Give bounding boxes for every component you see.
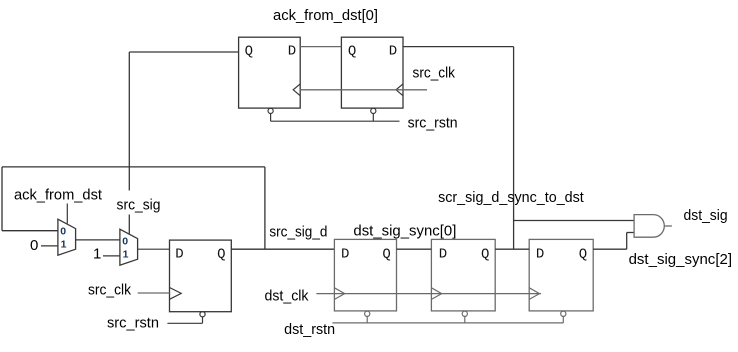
svg-text:0: 0: [30, 237, 38, 254]
flip-flop U2 (ack sync stage 1, top-right): [341, 37, 403, 108]
wire src_sig_d: U3.Q to U4.D: [231, 248, 334, 250]
svg-text:D: D: [536, 246, 544, 262]
wire reset stub of U1: [270, 114, 272, 122]
clock pin triangle of U6: [529, 288, 539, 300]
svg-text:1: 1: [93, 246, 101, 263]
wire U1.Q output going left: [129, 51, 238, 53]
svg-text:Q: Q: [348, 44, 356, 60]
wire U2.D to vertical feedback riser: [403, 46, 514, 48]
wire constant 0 to M1 input 1: [41, 245, 58, 247]
svg-text:ack_from_dst: ack_from_dst: [14, 187, 103, 204]
wire reset stub of U4: [366, 316, 368, 323]
reset bubble of U6: [561, 311, 566, 316]
wire reset stub of U6: [562, 316, 564, 323]
wire into AND gate lower input: [627, 232, 634, 234]
wire src_clk to U1/U2 clock pins: [300, 89, 427, 91]
clock pin triangle of U5: [431, 288, 441, 300]
svg-text:scr_sig_d_sync_to_dst: scr_sig_d_sync_to_dst: [438, 189, 584, 206]
svg-text:dst_sig: dst_sig: [684, 207, 728, 224]
svg-text:1: 1: [123, 249, 129, 261]
svg-text:dst_rstn: dst_rstn: [284, 321, 335, 338]
wire U5.Q to U6.D (riser junction): [495, 248, 529, 250]
wire feedback: src_sig_d to M1 input 0 (vertical right drop): [264, 167, 266, 249]
wire branch to AND gate top input: [514, 220, 635, 222]
svg-text:D: D: [341, 246, 349, 262]
flip-flop U3 (src capture FF): [170, 240, 232, 312]
reset bubble of U4: [365, 311, 370, 316]
svg-text:dst_sig_sync[2]: dst_sig_sync[2]: [629, 251, 732, 268]
wire U4.Q to U5.D: [397, 248, 432, 250]
svg-text:D: D: [288, 44, 296, 60]
AND gate G1: [634, 215, 664, 238]
svg-text:src_rstn: src_rstn: [107, 314, 159, 331]
wire AND gate output dst_sig: [664, 225, 672, 227]
wire reset stub of U5: [464, 316, 466, 323]
svg-text:dst_sig_sync[0]: dst_sig_sync[0]: [353, 223, 456, 240]
svg-text:Q: Q: [579, 246, 587, 262]
svg-text:Q: Q: [245, 44, 253, 60]
svg-text:src_clk: src_clk: [413, 65, 456, 82]
wire src_rstn stub to U3 bubble: [202, 317, 204, 324]
wire vertical drop to src_sig mux select (upper part): [128, 52, 130, 191]
svg-text:dst_clk: dst_clk: [265, 288, 309, 305]
svg-text:Q: Q: [382, 246, 390, 262]
svg-text:D: D: [175, 246, 183, 262]
wire src_rstn to U1/U2 reset: [271, 120, 400, 122]
wire U1.D to U2.Q: [300, 46, 341, 48]
wire reset stub of U2: [372, 114, 374, 122]
wire dst_rstn run: [332, 322, 563, 324]
clock pin triangle of U4: [334, 288, 344, 300]
flip-flop U4 (dst sync stage 0): [334, 239, 396, 311]
wire src_clk into U3 clock: [138, 292, 170, 294]
wire feedback left vertical drop: [1, 167, 3, 231]
reset bubble of U2: [371, 108, 376, 113]
wire riser to AND gate lower input: [626, 233, 628, 250]
svg-text:src_sig: src_sig: [117, 197, 161, 214]
flip-flop U6 (dst sync stage 2): [529, 239, 593, 311]
mux M1 (ack_from_dst clear mux): [58, 219, 76, 255]
svg-text:0: 0: [60, 226, 66, 238]
wire M2 output to U3.D: [138, 248, 170, 250]
svg-text:1: 1: [61, 239, 67, 251]
wire feedback into M1 input 0: [2, 230, 58, 232]
clock pin triangle of U1: [293, 84, 300, 96]
wire ack_from_dst to M1 select: [66, 204, 68, 224]
wire dst_clk run through U4 U5 to U6: [316, 293, 541, 295]
svg-text:0: 0: [122, 236, 128, 248]
svg-text:Q: Q: [481, 246, 489, 262]
wire U6.Q to AND gate lower input: [593, 248, 627, 250]
reset bubble of U1: [268, 108, 273, 113]
svg-text:src_clk: src_clk: [88, 281, 131, 298]
svg-text:src_sig_d: src_sig_d: [269, 223, 327, 240]
flip-flop U1 (ack sync stage 2, top-left): [239, 37, 301, 108]
wire vertical drop to src_sig mux select (lower part): [128, 215, 130, 234]
wire vertical riser scr_sig_d_sync_to_dst: [513, 47, 515, 250]
clock pin triangle of U3: [170, 288, 182, 300]
flip-flop U5 (dst sync stage 1): [431, 239, 495, 311]
clock pin triangle of U2: [396, 84, 403, 96]
svg-text:D: D: [389, 44, 397, 60]
reset bubble of U3: [200, 312, 205, 317]
wire src_rstn run: [167, 322, 202, 324]
reset bubble of U5: [462, 311, 467, 316]
wire M1 output to M2 input 0: [76, 239, 120, 241]
wire constant 1 to M2 input 1: [103, 255, 120, 257]
wire feedback horizontal run: [2, 166, 265, 168]
svg-text:Q: Q: [217, 246, 225, 262]
svg-text:src_rstn: src_rstn: [408, 114, 458, 131]
svg-text:ack_from_dst[0]: ack_from_dst[0]: [273, 7, 378, 24]
mux M2 (src_sig set mux): [120, 229, 138, 265]
svg-text:D: D: [439, 246, 447, 262]
